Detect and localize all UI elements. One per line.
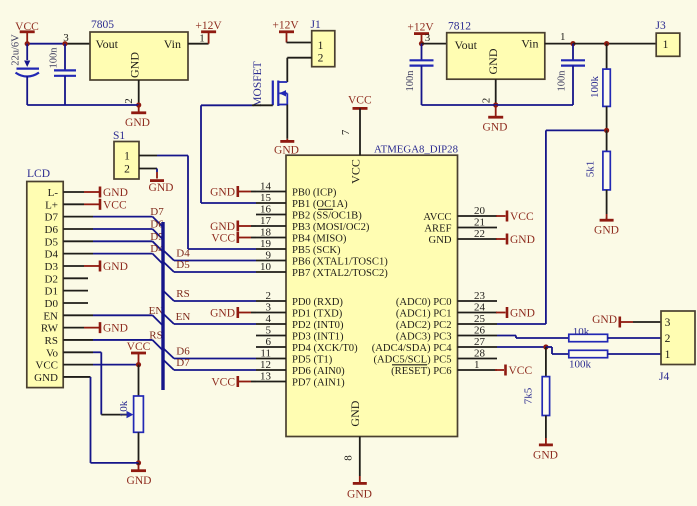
svg-text:AREF: AREF [424, 224, 451, 235]
svg-text:9: 9 [266, 250, 272, 262]
svg-text:D7: D7 [150, 206, 164, 218]
svg-text:10: 10 [260, 261, 272, 273]
svg-text:PD3 (INT1): PD3 (INT1) [292, 332, 344, 343]
svg-text:PD5 (T1): PD5 (T1) [292, 355, 333, 366]
svg-text:PB0 (ICP): PB0 (ICP) [292, 188, 337, 199]
svg-text:RW: RW [41, 323, 59, 335]
svg-text:RS: RS [149, 329, 162, 341]
svg-text:D5: D5 [45, 236, 59, 248]
svg-text:PB1 (OC1A): PB1 (OC1A) [292, 199, 348, 210]
svg-text:3: 3 [665, 317, 671, 329]
svg-text:GND: GND [594, 225, 619, 237]
svg-text:Vout: Vout [96, 37, 119, 51]
svg-text:D7: D7 [176, 357, 190, 369]
svg-text:GND: GND [103, 261, 128, 273]
svg-text:GND: GND [210, 221, 235, 233]
svg-text:(ADC5/SCL) PC5: (ADC5/SCL) PC5 [374, 355, 452, 366]
svg-text:VCC: VCC [35, 360, 58, 372]
svg-text:2: 2 [124, 164, 130, 176]
svg-text:3: 3 [266, 302, 272, 314]
svg-text:D2: D2 [45, 273, 58, 285]
svg-text:PB7 (XTAL2/TOSC2): PB7 (XTAL2/TOSC2) [292, 268, 388, 279]
svg-text:J3: J3 [656, 20, 666, 32]
svg-text:100n: 100n [557, 70, 568, 92]
svg-text:ATMEGA8_DIP28: ATMEGA8_DIP28 [374, 144, 458, 156]
svg-text:+12V: +12V [195, 20, 222, 32]
svg-text:VCC: VCC [211, 377, 235, 389]
svg-text:(ADC1) PC1: (ADC1) PC1 [396, 309, 452, 320]
svg-text:1: 1 [663, 39, 669, 51]
svg-text:2: 2 [318, 53, 324, 65]
svg-text:19: 19 [260, 238, 272, 250]
svg-text:PB3 (MOSI/OC2): PB3 (MOSI/OC2) [292, 222, 370, 233]
svg-text:EN: EN [43, 310, 58, 322]
svg-text:D6: D6 [176, 346, 190, 358]
svg-text:22u/6V: 22u/6V [11, 34, 22, 66]
svg-text:PD2 (INT0): PD2 (INT0) [292, 320, 344, 331]
svg-text:(ADC3) PC3: (ADC3) PC3 [396, 332, 452, 343]
svg-text:VCC: VCC [509, 365, 533, 377]
svg-text:Vin: Vin [521, 37, 538, 51]
svg-text:S1: S1 [113, 130, 125, 142]
svg-text:GND: GND [347, 489, 372, 501]
svg-text:GND: GND [533, 450, 558, 462]
svg-text:100k: 100k [569, 359, 592, 371]
svg-text:D0: D0 [45, 298, 59, 310]
svg-text:GND: GND [510, 308, 535, 320]
svg-text:GND: GND [128, 52, 142, 78]
svg-text:GND: GND [348, 400, 362, 426]
svg-text:L+: L+ [45, 199, 58, 211]
svg-text:15: 15 [260, 192, 272, 204]
svg-text:GND: GND [103, 323, 128, 335]
svg-text:PD1 (TXD): PD1 (TXD) [292, 309, 343, 320]
svg-text:VCC: VCC [348, 94, 372, 106]
svg-text:D4: D4 [176, 248, 190, 260]
svg-text:7812: 7812 [448, 21, 471, 33]
svg-text:2: 2 [123, 98, 135, 104]
svg-text:100k: 100k [589, 76, 601, 99]
svg-text:D3: D3 [45, 261, 59, 273]
svg-text:LCD: LCD [27, 168, 50, 180]
svg-text:PD4 (XCK/T0): PD4 (XCK/T0) [292, 343, 358, 354]
svg-text:2: 2 [481, 98, 493, 104]
svg-text:17: 17 [260, 215, 272, 227]
svg-text:GND: GND [127, 475, 152, 487]
svg-text:1: 1 [665, 349, 671, 361]
svg-text:PB2 (SS/OC1B): PB2 (SS/OC1B) [292, 211, 362, 222]
svg-text:AVCC: AVCC [423, 212, 451, 223]
svg-text:D6: D6 [45, 224, 59, 236]
svg-text:L-: L- [48, 187, 59, 199]
svg-text:GND: GND [274, 145, 299, 157]
svg-text:VCC: VCC [103, 199, 127, 211]
svg-text:J1: J1 [311, 19, 321, 31]
svg-text:GND: GND [210, 187, 235, 199]
svg-text:1: 1 [560, 31, 566, 43]
svg-text:7k5: 7k5 [523, 387, 535, 404]
svg-text:MOSFET: MOSFET [252, 61, 264, 106]
svg-text:GND: GND [592, 314, 617, 326]
svg-text:D1: D1 [45, 286, 58, 298]
svg-text:2: 2 [665, 333, 671, 345]
svg-text:GND: GND [210, 308, 235, 320]
svg-text:D7: D7 [45, 212, 59, 224]
svg-text:PD7 (AIN1): PD7 (AIN1) [292, 378, 345, 389]
svg-text:18: 18 [260, 227, 272, 239]
svg-text:8: 8 [343, 455, 355, 461]
svg-text:(RESET) PC6: (RESET) PC6 [391, 366, 451, 377]
svg-text:Vout: Vout [455, 38, 478, 52]
svg-text:16: 16 [260, 204, 272, 216]
svg-text:D5: D5 [176, 259, 190, 271]
svg-text:GND: GND [103, 187, 128, 199]
svg-text:GND: GND [429, 235, 452, 246]
svg-text:GND: GND [149, 182, 174, 194]
svg-text:(ADC2) PC2: (ADC2) PC2 [396, 320, 452, 331]
svg-text:1: 1 [124, 151, 130, 163]
svg-text:EN: EN [149, 305, 164, 317]
svg-text:VCC: VCC [510, 211, 534, 223]
svg-text:13: 13 [260, 371, 272, 383]
svg-text:VCC: VCC [349, 159, 363, 184]
svg-text:3: 3 [425, 32, 431, 44]
svg-text:D4: D4 [45, 249, 59, 261]
svg-text:GND: GND [34, 372, 58, 384]
svg-text:PB4 (MISO): PB4 (MISO) [292, 234, 347, 245]
svg-text:PD6 (AIN0): PD6 (AIN0) [292, 366, 345, 377]
svg-text:+12V: +12V [407, 22, 434, 34]
svg-text:(ADC4/SDA) PC4: (ADC4/SDA) PC4 [372, 343, 452, 354]
svg-text:J4: J4 [659, 371, 669, 383]
svg-text:GND: GND [510, 234, 535, 246]
svg-text:12: 12 [260, 359, 271, 371]
svg-text:4: 4 [266, 313, 272, 325]
svg-text:RS: RS [45, 335, 58, 347]
svg-text:7805: 7805 [91, 19, 114, 31]
svg-text:GND: GND [483, 122, 508, 134]
svg-text:GND: GND [486, 48, 500, 74]
svg-text:10k: 10k [118, 400, 130, 417]
svg-text:EN: EN [176, 311, 191, 323]
svg-text:PD0 (RXD): PD0 (RXD) [292, 297, 343, 308]
svg-text:14: 14 [260, 181, 272, 193]
svg-text:100n: 100n [49, 47, 60, 69]
svg-text:7: 7 [340, 129, 352, 135]
svg-text:5: 5 [266, 325, 272, 337]
svg-text:PB6 (XTAL1/TOSC1): PB6 (XTAL1/TOSC1) [292, 257, 388, 268]
svg-text:RS: RS [176, 288, 189, 300]
svg-text:VCC: VCC [127, 341, 151, 353]
svg-text:VCC: VCC [211, 233, 235, 245]
svg-text:(ADC0) PC0: (ADC0) PC0 [396, 297, 452, 308]
svg-text:11: 11 [260, 348, 271, 360]
svg-text:5k1: 5k1 [585, 161, 597, 178]
svg-text:PB5 (SCK): PB5 (SCK) [292, 245, 341, 256]
svg-text:1: 1 [199, 32, 205, 44]
svg-text:6: 6 [266, 336, 272, 348]
svg-text:10k: 10k [573, 326, 590, 338]
svg-text:100n: 100n [405, 70, 416, 92]
svg-text:1: 1 [318, 40, 324, 52]
svg-text:Vo: Vo [46, 347, 59, 359]
svg-text:2: 2 [266, 290, 272, 302]
svg-text:Vin: Vin [164, 37, 181, 51]
svg-text:+12V: +12V [272, 20, 299, 32]
svg-text:GND: GND [125, 117, 150, 129]
